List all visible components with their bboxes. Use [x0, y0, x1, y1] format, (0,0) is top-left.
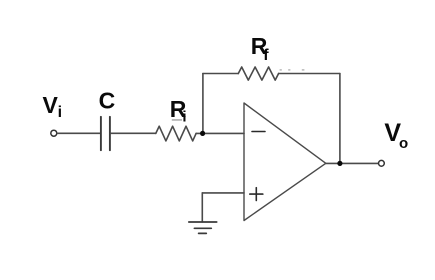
terminal Vi [51, 130, 57, 136]
wire feedback top left [203, 73, 238, 75]
resistor Ri [156, 126, 196, 141]
ground [189, 222, 217, 233]
wire Ri to op-amp inverting input [196, 132, 244, 134]
capacitor C [101, 117, 110, 150]
wire feedback left vertical [202, 74, 204, 134]
wire C to Ri [111, 132, 156, 134]
svg-text:i: i [182, 108, 186, 125]
wire non-inverting input [202, 192, 244, 194]
svg-text:C: C [99, 88, 116, 114]
resistor Rf [238, 67, 278, 80]
svg-text:i: i [58, 104, 62, 121]
wire output [326, 162, 379, 164]
wire Vi to C [57, 132, 100, 134]
op-amp minus sign [252, 131, 265, 133]
svg-text:V: V [43, 92, 59, 118]
faint artifact dots [280, 69, 305, 70]
op-amp plus sign [250, 188, 263, 201]
output node junction dot [337, 161, 342, 166]
svg-text:f: f [263, 47, 269, 64]
label Ri underline artifact [172, 119, 182, 120]
terminal Vo [379, 160, 385, 166]
wire feedback top right [279, 73, 340, 75]
op-amp U1 [244, 103, 326, 221]
wire to ground [201, 193, 203, 222]
node A junction dot (Ri / Rf / inverting input) [200, 131, 205, 136]
wire feedback right vertical [339, 74, 341, 164]
svg-text:o: o [399, 135, 408, 152]
